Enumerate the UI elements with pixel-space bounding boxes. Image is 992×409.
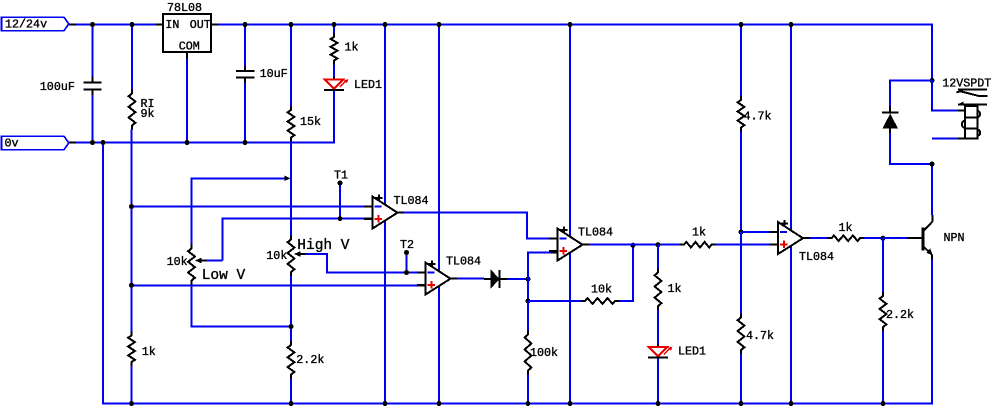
relay RL1 contact fixed upper [958, 89, 987, 91]
potentiometer VR1 value label 10k [167, 255, 188, 269]
connector 0v label [5, 136, 19, 150]
junction bottom rail / V+ x439 [437, 401, 442, 406]
junction top rail / V+ x385 [383, 22, 388, 27]
svg-text:T1: T1 [334, 169, 348, 183]
svg-text:100uF: 100uF [40, 80, 75, 94]
pin stub 78L08 COM [186, 52, 188, 59]
wire top rail to C2 [244, 24, 246, 66]
pin stub 0v connector [69, 142, 76, 144]
pin stub LED2 anode [657, 345, 659, 348]
junction bottom rail / V+ x385 [383, 401, 388, 406]
capacitor C2 10uF [236, 66, 255, 83]
resistor R4 1k [331, 33, 338, 65]
resistor R12 4.7k lower value label [746, 329, 774, 343]
wire LED2 cathode to bottom rail [657, 359, 659, 404]
regulator pin label COM [179, 39, 200, 53]
junction 0v rail / left drop [101, 140, 106, 145]
relay RL1 contact fixed lower [958, 102, 987, 105]
wire RI down left bus [131, 130, 133, 332]
op-amp U1A TL084 label TL084 [394, 194, 429, 208]
wire 78L08 COM to 0v rail [186, 59, 188, 143]
svg-text:10uF: 10uF [260, 67, 288, 81]
wire U1A output to U1C - input [404, 213, 551, 239]
wire V+ column x439 [438, 24, 440, 404]
wire R10 to LED2 [657, 310, 659, 345]
wire V+ column x385 [384, 24, 386, 404]
wire VR1 wiper elbow [207, 260, 223, 262]
svg-text:TL084: TL084 [394, 194, 429, 208]
potentiometer VR2 value label 10k [266, 249, 287, 263]
junction bottom rail / LED2 [656, 401, 661, 406]
wire R11 to node D [740, 132, 742, 233]
svg-text:9k: 9k [141, 107, 155, 121]
junction node A VR1-VR2-R3 [289, 324, 294, 329]
relay RL1 coil body [962, 106, 980, 138]
capacitor C2 value label 10uF [260, 67, 288, 81]
wire LED1 cathode to 0v rail [333, 91, 335, 143]
test point T1 label [334, 169, 348, 183]
potentiometer VR1 wiper arrow [195, 258, 207, 264]
resistor R11 4.7k upper [738, 96, 745, 132]
junction top rail / R2 [289, 22, 294, 27]
wire R4 to LED1 [333, 65, 335, 78]
wire V+ column x791 [790, 24, 792, 404]
wire D2 bottom to relay coil bottom node [890, 133, 932, 164]
junction bottom rail / R14 [881, 401, 886, 406]
wire C1 to 0v rail [92, 95, 94, 143]
svg-text:15k: 15k [300, 115, 321, 129]
pin stub U1B - input [419, 272, 426, 274]
svg-text:Low V: Low V [202, 268, 246, 284]
wire VR1 bottom to node A [192, 285, 292, 327]
resistor RI 9k [129, 90, 136, 130]
svg-text:TL084: TL084 [799, 250, 834, 264]
svg-text:10k: 10k [266, 249, 287, 263]
svg-text:High V: High V [297, 238, 350, 254]
junction T1 on U1A + wire [338, 216, 343, 221]
potentiometer VR2 High V 10k body [288, 236, 295, 277]
wire U1C output bus [589, 244, 680, 246]
resistor R14 2.2k [880, 292, 887, 331]
svg-text:10k: 10k [167, 255, 188, 269]
junction bottom rail / R9 [525, 401, 530, 406]
wire R13 to node E [864, 237, 883, 239]
resistor R7 1k lower-left value label [142, 345, 156, 359]
potentiometer VR1 Low V 10k body [188, 245, 195, 285]
junction node C [526, 299, 531, 304]
pin stub LED1 anode [333, 77, 335, 80]
pin stub U1A - input [364, 206, 373, 208]
junction node D divider midpoint [739, 230, 744, 235]
wire node C down to R9 [527, 301, 529, 331]
op-amp U1D TL084 label TL084 [799, 250, 834, 264]
connector 12/24v label [5, 18, 47, 32]
junction top rail / R11 [739, 22, 744, 27]
diode D1 [484, 270, 507, 288]
junction U1C output / R10 column [656, 242, 661, 247]
svg-text:78L08: 78L08 [167, 1, 202, 15]
svg-text:IN: IN [165, 18, 179, 32]
potentiometer VR1 name label Low V [202, 268, 246, 284]
junction 0v rail / COM [185, 140, 190, 145]
wire VR2 wiper to op-amp U1B - input [306, 254, 420, 273]
junction left bus / U1A - wire [129, 204, 134, 209]
op-amp U1C TL084 [549, 227, 589, 261]
wire U1B output to D1 [457, 278, 484, 280]
wire relay node to D2 top [890, 81, 932, 107]
resistor R9 100k value label [530, 346, 558, 360]
junction top rail / R4 [332, 22, 337, 27]
svg-text:1k: 1k [839, 221, 853, 235]
wire R8 to U1C output [619, 245, 633, 301]
svg-text:NPN: NPN [944, 231, 965, 245]
svg-text:1k: 1k [142, 345, 156, 359]
junction 0v rail / C2 [243, 140, 248, 145]
wire +8V top rail right of regulator [218, 25, 932, 81]
op-amp U1C TL084 label TL084 [578, 226, 613, 240]
svg-text:TL084: TL084 [446, 255, 481, 269]
pin stub U1C - input [551, 237, 558, 239]
regulator pin label IN [165, 18, 179, 32]
junction relay coil bottom node [930, 162, 935, 167]
pin stub Q1 base [907, 237, 922, 239]
LED LED1 power indicator [324, 79, 348, 90]
wire R5 to U1D + input [716, 244, 772, 246]
wire node A to R3 [290, 327, 292, 342]
wire V+ column x570 [569, 24, 571, 404]
wire node E to Q1 base [883, 237, 907, 239]
test point T1 pad [338, 181, 343, 186]
junction left bus / U1B + wire [129, 283, 134, 288]
wire lower bus to U1A - input [132, 206, 365, 208]
op-amp U1B TL084 [417, 261, 457, 295]
junction U1C output / R8 [631, 243, 636, 248]
wire 0v rail [76, 91, 334, 143]
wire top rail to R11 [740, 24, 742, 96]
wire top rail to R2 [290, 24, 292, 106]
svg-text:COM: COM [179, 39, 200, 53]
resistor R2 15k value label [300, 115, 321, 129]
resistor RI name label [141, 97, 155, 111]
resistor RI value label 9k [141, 107, 155, 121]
arrow VR1 top tie to High V column [285, 176, 291, 181]
resistor R5 1k series value label [692, 226, 706, 240]
resistor R3 2.2k value label [296, 353, 324, 367]
wire relay node down to coil top pin [932, 81, 958, 111]
wire bottom ground rail [103, 143, 932, 404]
op-amp U1B TL084 label TL084 [446, 255, 481, 269]
svg-text:T2: T2 [400, 238, 414, 252]
resistor R4 1k value label [345, 41, 359, 55]
connector 0v input flag [2, 136, 69, 150]
wire node D down to R12 [740, 232, 742, 314]
svg-text:0v: 0v [5, 136, 19, 150]
svg-text:1k: 1k [345, 41, 359, 55]
svg-text:OUT: OUT [190, 18, 211, 32]
resistor R13 1k base [828, 235, 865, 241]
wire T1 to U1A + input wire [339, 186, 341, 219]
regulator pin label OUT [190, 18, 211, 32]
relay RL1 label 12VSPDT [942, 77, 991, 91]
pin stub U1D + input [771, 244, 778, 246]
junction T2 on U1B - wire [404, 270, 409, 275]
wire R12 to bottom rail [740, 354, 742, 404]
junction top rail / V+ x439 [437, 22, 442, 27]
pin stub 78L08 OUT [211, 24, 218, 26]
pin stub U1A + input [364, 218, 373, 220]
junction top rail / C1 [90, 22, 95, 27]
svg-text:LED1: LED1 [678, 345, 706, 359]
resistor R2 15k [288, 106, 295, 142]
resistor R9 100k [525, 331, 532, 375]
pin stub 78L08 IN [156, 24, 163, 26]
wire +V top rail left of regulator [76, 24, 156, 26]
svg-text:1k: 1k [692, 226, 706, 240]
transistor Q1 label NPN [944, 231, 965, 245]
pin stub 12/24v connector [69, 24, 76, 26]
pin stub relay coil bottom [958, 137, 965, 139]
junction bottom rail / V+ x791 [789, 401, 794, 406]
capacitor C1 value label 100uF [40, 80, 75, 94]
junction top rail / C2 [243, 22, 248, 27]
potentiometer VR2 wiper arrow [294, 251, 306, 257]
svg-text:100k: 100k [530, 346, 558, 360]
pin stub U1B + input [419, 284, 426, 286]
pin stub U1C + input [551, 251, 558, 253]
wire node D to U1D - input [741, 231, 771, 233]
connector 12/24v input flag [2, 17, 69, 30]
svg-text:2.2k: 2.2k [296, 353, 324, 367]
junction top rail / V+ x791 [789, 22, 794, 27]
junction node B diode output [526, 277, 531, 282]
regulator 78L08 part label [167, 1, 202, 15]
diode D2 flyback [882, 106, 899, 133]
resistor R13 1k base value label [839, 221, 853, 235]
wire node B up to U1C + input [528, 252, 551, 279]
relay RL1 contact moving arm [957, 91, 988, 96]
LED LED1 power indicator label [354, 78, 382, 92]
junction bottom rail / R12 [739, 401, 744, 406]
wire U1D output to R13 [810, 237, 828, 239]
wire R9 to bottom rail [527, 375, 529, 404]
svg-text:10k: 10k [591, 283, 612, 297]
test point T2 label [400, 238, 414, 252]
resistor R8 10k feedback value label [591, 283, 612, 297]
resistor R8 10k feedback [581, 298, 619, 304]
test point T2 pad [404, 250, 409, 255]
wire VR1 top elbow [192, 178, 286, 244]
resistor R10 1k [655, 269, 662, 311]
pin stub relay coil top [958, 110, 965, 112]
resistor R12 4.7k lower [738, 314, 745, 355]
wire R2 through 0v to pot VR2 [290, 142, 292, 236]
svg-text:4.7k: 4.7k [746, 329, 774, 343]
svg-text:1k: 1k [668, 282, 682, 296]
junction node E base node [881, 236, 886, 241]
pin stub U1D - input [771, 231, 778, 233]
op-amp U1D TL084 [770, 220, 810, 254]
resistor R10 1k value label [668, 282, 682, 296]
transistor Q1 NPN [922, 215, 933, 260]
LED LED1 output indicator label [678, 345, 706, 359]
wire C2 to 0v rail [244, 83, 246, 143]
svg-text:12/24v: 12/24v [5, 18, 47, 32]
wire top rail to RI [131, 24, 133, 90]
junction top rail / RI [130, 22, 135, 27]
wire top rail to C1 [92, 24, 94, 77]
wire node B down to node C [527, 279, 529, 301]
junction bottom rail / V+ x570 [568, 401, 573, 406]
wire top rail to R4 [333, 24, 335, 33]
svg-text:2.2k: 2.2k [886, 308, 914, 322]
LED LED1 output indicator [648, 347, 672, 358]
op-amp U1A TL084 [364, 195, 404, 229]
wire D1 cathode to node B [507, 278, 528, 280]
junction top rail / V+ x570 [568, 22, 573, 27]
wire output bus down to R10 [657, 245, 659, 269]
resistor R5 1k series [680, 242, 716, 248]
junction bottom rail / R3 [289, 401, 294, 406]
junction bottom rail / R7 [129, 401, 134, 406]
wire T2 to U1B - input wire [406, 255, 408, 273]
svg-text:4.7k: 4.7k [744, 110, 772, 124]
svg-text:TL084: TL084 [578, 226, 613, 240]
wire node E down to R14 [882, 238, 884, 292]
svg-text:LED1: LED1 [354, 78, 382, 92]
junction 0v rail / C1 [90, 140, 95, 145]
wire U1A + input from VR1 wiper [222, 219, 364, 261]
resistor R7 1k lower-left [128, 332, 135, 367]
wire VR2 bottom to node A [290, 276, 292, 327]
wire R14 to bottom rail [882, 331, 884, 404]
wire R3 to bottom rail [290, 379, 292, 404]
resistor R3 2.2k [288, 341, 295, 379]
wire R7 to bottom rail [131, 366, 133, 404]
junction relay top node [930, 78, 935, 83]
wire coil bottom pin [932, 137, 958, 139]
regulator U5 78L08 body [163, 14, 211, 52]
resistor R11 4.7k upper value label [744, 110, 772, 124]
wire plus bus to U1B + input [132, 284, 420, 286]
wire relay junction to Q1 collector [931, 164, 933, 215]
wire node C to R8 [528, 300, 581, 302]
capacitor C1 100uF [84, 77, 102, 96]
resistor R14 2.2k value label [886, 308, 914, 322]
potentiometer VR2 name label High V [297, 238, 350, 254]
